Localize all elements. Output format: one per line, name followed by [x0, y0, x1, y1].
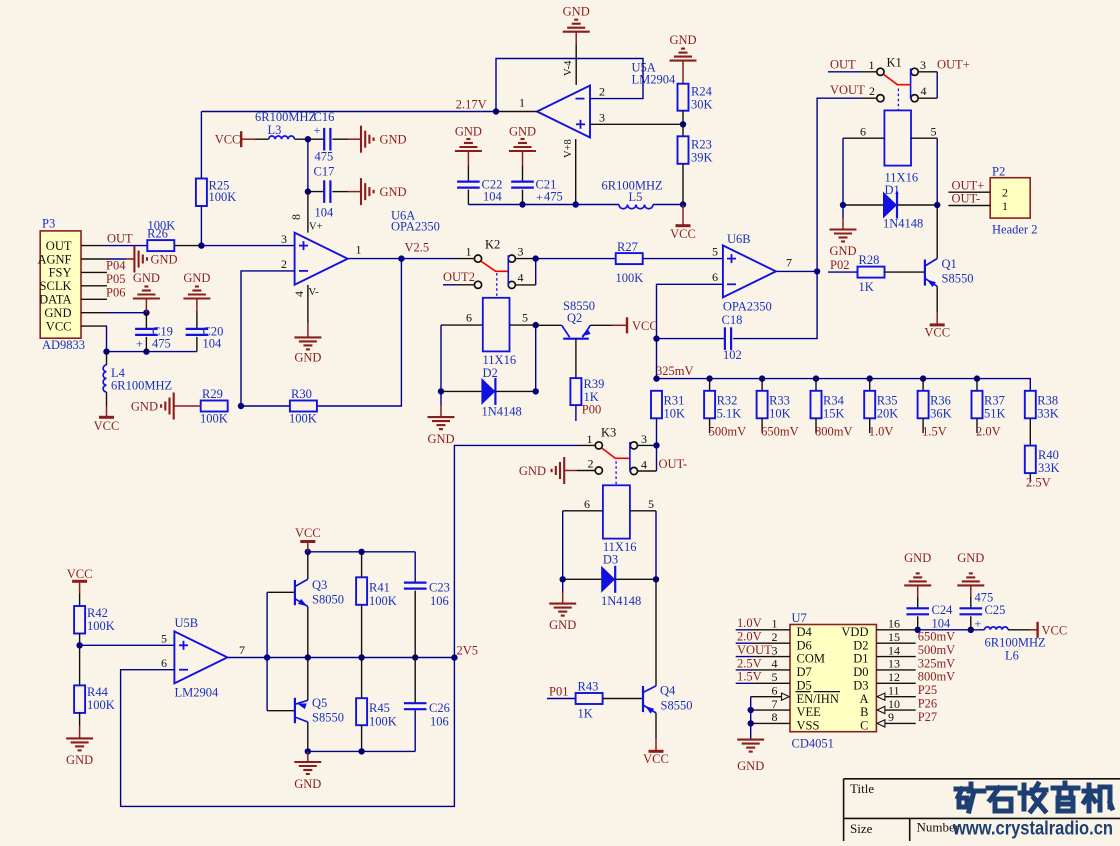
svg-text:GND: GND — [294, 777, 321, 791]
svg-text:1K: 1K — [578, 707, 593, 721]
svg-text:100K: 100K — [87, 698, 115, 712]
svg-text:1: 1 — [772, 617, 778, 631]
capacitor C23 106 — [404, 581, 427, 583]
switch K1 throw contacts — [911, 68, 918, 75]
svg-text:GND: GND — [549, 618, 576, 632]
wire R31 to K3 contacts — [656, 418, 658, 445]
svg-text:4: 4 — [292, 291, 306, 297]
svg-text:Q3: Q3 — [312, 578, 327, 592]
svg-text:7: 7 — [786, 256, 792, 270]
svg-text:1: 1 — [1002, 199, 1008, 213]
relay coil K2 11X16 — [483, 298, 510, 352]
svg-text:6: 6 — [860, 125, 866, 139]
wire Q5 collector to gnd rail — [307, 722, 309, 751]
wire P02 stub — [828, 271, 858, 273]
svg-text:R30: R30 — [291, 387, 312, 401]
resistor R28 1K — [858, 267, 885, 278]
svg-text:325mV: 325mV — [656, 364, 694, 378]
svg-text:D2: D2 — [853, 638, 868, 652]
svg-text:DATA: DATA — [39, 293, 71, 307]
svg-text:GND: GND — [44, 306, 71, 320]
op-amp U6B OPA2350 — [723, 245, 776, 297]
svg-text:D5: D5 — [797, 678, 812, 692]
svg-text:Q2: Q2 — [567, 311, 582, 325]
wire Q3 emitter to 2V5 — [307, 607, 309, 658]
svg-text:D3: D3 — [603, 553, 618, 567]
wire R39 stub — [575, 405, 577, 421]
svg-text:104: 104 — [315, 206, 335, 220]
svg-text:U5B: U5B — [175, 616, 199, 630]
wire U7 pin 9 with input arrow — [877, 720, 885, 727]
dashed link K3 — [615, 461, 617, 485]
svg-text:100K: 100K — [87, 619, 115, 633]
svg-text:2: 2 — [1002, 186, 1008, 200]
net label 800mV — [815, 418, 817, 433]
capacitor C22 104 — [457, 181, 480, 183]
wire U5A output 2.17V — [496, 111, 537, 113]
svg-text:6: 6 — [161, 656, 167, 670]
capacitor C19 475 polarized — [145, 313, 147, 329]
resistor R30 100K — [290, 401, 317, 412]
svg-text:100K: 100K — [369, 715, 397, 729]
svg-text:R39: R39 — [584, 377, 605, 391]
resistor R25 100K — [200, 112, 202, 179]
net label 1.0V — [869, 418, 871, 433]
svg-text:C18: C18 — [722, 313, 743, 327]
wire U7 pin 1 — [736, 629, 753, 631]
wire K2 to R27 — [536, 258, 616, 260]
wire Q3 collector to VCC rail — [307, 552, 309, 579]
svg-text:16: 16 — [888, 617, 900, 631]
svg-text:VCC: VCC — [94, 419, 120, 433]
wire U7 pin 12 — [876, 682, 915, 684]
wire Q5 emitter to 2V5 — [307, 658, 309, 701]
svg-text:VCC: VCC — [295, 526, 321, 540]
svg-text:V+8: V+8 — [563, 139, 574, 158]
power VCC after L6 — [1008, 629, 1030, 631]
svg-text:2: 2 — [588, 457, 594, 471]
svg-text:Q4: Q4 — [660, 684, 676, 698]
svg-text:S8050: S8050 — [312, 593, 344, 607]
svg-text:1.0V: 1.0V — [869, 425, 894, 439]
switch K1 pin2 — [877, 95, 884, 102]
svg-text:8: 8 — [289, 214, 303, 220]
wire U5B output 2V5 rail — [228, 657, 455, 659]
svg-text:FSY: FSY — [49, 266, 72, 280]
svg-text:VOUT: VOUT — [737, 643, 772, 657]
svg-text:V-4: V-4 — [563, 60, 574, 76]
wire U7 pin16 VDD rail — [876, 629, 917, 631]
resistor R23 39K — [678, 136, 689, 164]
wire gnd to U5A V- pin4 — [575, 45, 577, 85]
wire R38 to R40 — [1029, 418, 1031, 445]
inductor L4 6R100MHZ — [106, 352, 108, 365]
wire GND pin to C19 — [107, 312, 146, 314]
svg-text:R23: R23 — [691, 138, 712, 152]
svg-text:K3: K3 — [601, 426, 616, 440]
dashed link K2 — [496, 273, 498, 298]
svg-text:C26: C26 — [429, 701, 450, 715]
net label 2.5V — [1029, 473, 1031, 482]
resistor R34 15K — [813, 375, 819, 381]
svg-text:P2: P2 — [992, 165, 1005, 179]
resistor R26 100K — [147, 240, 174, 251]
svg-text:GND: GND — [519, 464, 546, 478]
svg-text:2: 2 — [599, 85, 605, 99]
svg-text:GND: GND — [294, 351, 321, 365]
svg-text:3: 3 — [920, 58, 926, 72]
switch K1 blade — [884, 74, 911, 84]
svg-text:D4: D4 — [797, 625, 813, 639]
resistor R43 1K — [576, 693, 603, 704]
svg-text:1N4148: 1N4148 — [601, 594, 641, 608]
ground below D2 anode — [440, 391, 442, 405]
svg-text:GND: GND — [669, 33, 696, 47]
svg-text:S8550: S8550 — [661, 699, 693, 713]
transistor Q4 S8550 — [603, 698, 643, 700]
svg-text:AD9833: AD9833 — [42, 338, 85, 352]
svg-text:500mV: 500mV — [709, 425, 747, 439]
svg-text:10K: 10K — [769, 407, 791, 421]
svg-text:OUT-: OUT- — [952, 192, 981, 206]
svg-text:LM2904: LM2904 — [175, 686, 220, 700]
svg-text:2: 2 — [772, 630, 778, 644]
wire V+ pin 8 of U6A — [307, 192, 309, 233]
power VCC below L4 — [106, 392, 108, 406]
svg-text:106: 106 — [430, 594, 449, 608]
wire R26 to U6A pin3 — [174, 245, 201, 247]
svg-text:R37: R37 — [984, 394, 1005, 408]
resistor R29 100K — [201, 401, 228, 412]
svg-text:2.17V: 2.17V — [456, 98, 487, 112]
svg-text:7: 7 — [239, 643, 245, 657]
resistor R33 10K — [759, 375, 765, 381]
svg-text:R31: R31 — [664, 394, 685, 408]
svg-text:OUT+: OUT+ — [937, 58, 970, 72]
svg-text:100K: 100K — [369, 594, 397, 608]
svg-text:51K: 51K — [984, 407, 1006, 421]
svg-text:L5: L5 — [629, 190, 643, 204]
svg-text:36K: 36K — [930, 407, 952, 421]
svg-text:100K: 100K — [209, 190, 237, 204]
relay coil K1 11X16 — [884, 110, 911, 165]
svg-text:1: 1 — [869, 58, 875, 72]
resistor R39 1K — [570, 378, 581, 405]
wire P2 pin1 — [948, 205, 990, 207]
wire relay K3 pin6 — [563, 510, 603, 512]
svg-text:100K: 100K — [200, 412, 228, 426]
svg-text:1N4148: 1N4148 — [482, 405, 522, 419]
svg-text:4: 4 — [518, 271, 524, 285]
svg-text:VEE: VEE — [797, 705, 822, 719]
dashed link K1 — [897, 89, 899, 111]
svg-text:R26: R26 — [147, 226, 168, 240]
svg-text:GND: GND — [427, 432, 454, 446]
svg-text:2.0V: 2.0V — [737, 630, 762, 644]
svg-text:1K: 1K — [859, 280, 874, 294]
header P2 — [990, 178, 1030, 218]
diode D2 1N4148 — [438, 388, 444, 394]
svg-text:OUT-: OUT- — [659, 457, 688, 471]
svg-text:R45: R45 — [369, 701, 390, 715]
svg-text:R27: R27 — [617, 240, 638, 254]
svg-text:12: 12 — [888, 670, 900, 684]
connector P3 AD9833 — [40, 231, 81, 338]
resistor R40 33K — [1025, 446, 1036, 474]
svg-text:VCC: VCC — [643, 752, 669, 766]
wire U7 pin 4 — [736, 669, 753, 671]
capacitor C21 475 polarized — [511, 181, 534, 183]
wire U5A pin8 V+ down — [575, 139, 577, 204]
svg-text:L6: L6 — [1005, 649, 1019, 663]
capacitor C25 475 polarized — [960, 607, 983, 609]
power VCC at Q3 — [307, 542, 309, 552]
switch K3 throw contacts — [630, 442, 637, 449]
svg-text:www.crystalradio.cn: www.crystalradio.cn — [952, 819, 1113, 840]
svg-text:D6: D6 — [797, 638, 812, 652]
wire U7 pin 5 — [736, 682, 753, 684]
svg-text:+: + — [314, 123, 321, 137]
wire relay K2 pin5 — [510, 324, 536, 326]
svg-text:2.0V: 2.0V — [976, 425, 1001, 439]
svg-text:D7: D7 — [797, 665, 812, 679]
svg-text:R33: R33 — [769, 394, 790, 408]
bottom gnd rail — [308, 750, 415, 752]
wire U6B pin6 feedback — [657, 284, 723, 378]
svg-text:P06: P06 — [106, 285, 125, 299]
svg-text:VCC: VCC — [632, 319, 658, 333]
svg-text:L3: L3 — [268, 123, 282, 137]
svg-text:15: 15 — [888, 630, 900, 644]
svg-text:11X16: 11X16 — [483, 353, 517, 367]
svg-text:V2.5: V2.5 — [405, 241, 430, 255]
ground right of C16 — [332, 138, 348, 140]
svg-text:5: 5 — [648, 497, 654, 511]
op-amp U5B LM2904 — [174, 631, 227, 683]
svg-text:4: 4 — [921, 84, 927, 98]
svg-text:102: 102 — [723, 348, 742, 362]
svg-text:K1: K1 — [887, 56, 902, 70]
svg-text:10K: 10K — [664, 407, 686, 421]
wire D1 to Q1 collector — [936, 205, 938, 259]
resistor R38 33K — [1025, 391, 1036, 419]
svg-text:R24: R24 — [691, 85, 713, 99]
wire Q2 base down to R39 — [575, 339, 577, 378]
resistor R24 30K — [678, 84, 689, 111]
svg-text:6: 6 — [772, 683, 778, 697]
overline on EN/IHN — [796, 691, 811, 693]
wire divider — [79, 634, 81, 686]
svg-text:S8550: S8550 — [312, 711, 344, 725]
svg-text:VCC: VCC — [1042, 624, 1068, 638]
resistor R42 100K — [74, 606, 85, 634]
capacitor C20 104 — [196, 299, 198, 312]
svg-text:GND: GND — [455, 125, 482, 139]
wire cap bottom rail — [107, 351, 197, 353]
switch K2 pin1 — [474, 255, 481, 262]
wire R30 to R29 — [241, 405, 290, 407]
svg-text:GND: GND — [183, 271, 210, 285]
svg-text:COM: COM — [797, 652, 825, 666]
svg-text:OUT: OUT — [46, 239, 72, 253]
resistor R41 100K — [361, 552, 363, 578]
svg-text:D0: D0 — [853, 665, 868, 679]
svg-text:Q5: Q5 — [312, 696, 327, 710]
wire P2 pin2 — [948, 191, 990, 193]
relay coil K3 11X16 — [603, 485, 630, 538]
svg-text:9: 9 — [888, 710, 894, 724]
svg-text:39K: 39K — [691, 151, 713, 165]
wire U6A output to K2 — [348, 258, 456, 260]
resistor R31 10K — [651, 391, 662, 419]
switch K2 blade — [481, 261, 508, 271]
ground at U6A pin 4 — [307, 285, 309, 323]
svg-text:SCLK: SCLK — [40, 279, 72, 293]
net label 650mV — [761, 418, 763, 433]
svg-text:1.5V: 1.5V — [737, 670, 762, 684]
ground below U7 — [737, 739, 764, 741]
svg-text:106: 106 — [430, 715, 449, 729]
resistor R35 20K — [867, 375, 873, 381]
svg-text:5: 5 — [712, 245, 718, 259]
diode D1 1N4148 — [840, 202, 846, 208]
ground below R44 — [79, 713, 81, 726]
power VCC at Q1 — [936, 286, 938, 312]
wire relay K1 pin5 — [911, 137, 937, 139]
net label 500mV — [709, 418, 711, 433]
svg-text:Q1: Q1 — [942, 257, 957, 271]
svg-text:104: 104 — [932, 617, 952, 631]
svg-text:OUT: OUT — [830, 58, 856, 72]
wire 2.17V feedback to R25 column — [201, 111, 496, 113]
svg-text:R40: R40 — [1038, 448, 1059, 462]
svg-text:V-: V- — [309, 287, 320, 298]
svg-text:15K: 15K — [823, 407, 845, 421]
svg-text:R44: R44 — [87, 685, 109, 699]
svg-text:Size: Size — [850, 821, 873, 836]
wire U7 pin 15 — [876, 642, 915, 644]
svg-text:GND: GND — [151, 252, 178, 266]
net label 1.5V — [922, 418, 924, 433]
svg-text:GND: GND — [133, 271, 160, 285]
svg-text:20K: 20K — [877, 407, 899, 421]
ground right of C17 — [332, 191, 348, 193]
svg-text:K2: K2 — [485, 238, 500, 252]
switch K3 pin1 — [595, 442, 602, 449]
svg-text:2.5V: 2.5V — [737, 656, 762, 670]
svg-text:100K: 100K — [289, 412, 317, 426]
svg-text:+: + — [136, 337, 143, 351]
capacitor C24 104 — [906, 607, 929, 609]
svg-text:D3: D3 — [853, 678, 868, 692]
svg-text:R42: R42 — [87, 606, 108, 620]
svg-text:500mV: 500mV — [918, 643, 956, 657]
inductor L6 6R100MHZ — [985, 627, 1009, 630]
svg-text:8: 8 — [772, 710, 778, 724]
svg-text:6R100MHZ: 6R100MHZ — [111, 379, 172, 393]
diode D3 1N4148 — [560, 576, 566, 582]
svg-text:5: 5 — [522, 311, 528, 325]
svg-text:VCC: VCC — [67, 567, 93, 581]
svg-text:475: 475 — [315, 150, 334, 164]
wire K2 pins 3-4 tie — [515, 284, 535, 286]
wire U6A pin2 to feedback node — [241, 271, 295, 406]
wire P01 stub — [547, 698, 576, 700]
svg-text:6R100MHZ: 6R100MHZ — [255, 110, 316, 124]
svg-text:EN/IHN: EN/IHN — [797, 692, 839, 706]
svg-text:AGNF: AGNF — [37, 252, 71, 266]
wire U7 gnd column — [750, 697, 752, 740]
svg-text:2V5: 2V5 — [457, 644, 479, 658]
resistor R45 100K — [361, 658, 363, 699]
feedback wire U5A output to pin2 — [496, 59, 643, 112]
svg-text:1.5V: 1.5V — [922, 425, 947, 439]
svg-text:P25: P25 — [918, 683, 937, 697]
svg-text:OPA2350: OPA2350 — [391, 220, 440, 234]
switch K3 blade — [602, 448, 630, 458]
svg-text:GND: GND — [904, 551, 931, 565]
svg-text:VCC: VCC — [924, 326, 950, 340]
wire U7 pin7 VEE — [751, 709, 790, 711]
svg-text:R35: R35 — [877, 394, 898, 408]
svg-text:R32: R32 — [717, 394, 738, 408]
resistor R27 100K — [616, 253, 643, 264]
svg-text:R38: R38 — [1037, 394, 1058, 408]
svg-text:GND: GND — [829, 244, 856, 258]
svg-text:2: 2 — [869, 84, 875, 98]
wire 2V5 to K3 pin1 — [578, 444, 595, 446]
svg-text:C25: C25 — [985, 603, 1006, 617]
svg-text:V+: V+ — [309, 222, 323, 233]
wire Q3 Q5 base column — [266, 592, 268, 710]
svg-text:325mV: 325mV — [918, 656, 956, 670]
svg-text:R29: R29 — [202, 387, 223, 401]
svg-text:6: 6 — [712, 270, 718, 284]
wire V2.5 down to R30 — [317, 259, 401, 406]
svg-text:OUT: OUT — [107, 232, 133, 246]
svg-text:5: 5 — [161, 632, 167, 646]
svg-text:VCC: VCC — [46, 319, 72, 333]
svg-text:3: 3 — [641, 432, 647, 446]
wire relay K2 pin6 — [441, 324, 483, 326]
svg-text:6: 6 — [466, 311, 472, 325]
svg-text:4: 4 — [772, 657, 778, 671]
svg-text:5.1K: 5.1K — [717, 407, 742, 421]
svg-text:C16: C16 — [314, 110, 335, 124]
svg-text:3: 3 — [772, 643, 778, 657]
svg-text:6: 6 — [584, 497, 590, 511]
wire U7 pin 13 — [876, 669, 915, 671]
svg-text:GND: GND — [957, 551, 984, 565]
wire U7 pin6 enable — [751, 696, 782, 698]
svg-text:OUT2: OUT2 — [443, 270, 475, 284]
wire D3 to Q4 collector — [655, 579, 657, 686]
op-amp U6A OPA2350 — [295, 233, 348, 285]
svg-text:1: 1 — [466, 245, 472, 259]
wire U6B output — [776, 270, 817, 272]
svg-text:+: + — [536, 190, 543, 204]
svg-text:GND: GND — [66, 753, 93, 767]
svg-text:GND: GND — [563, 5, 590, 19]
svg-text:OUT+: OUT+ — [952, 178, 985, 192]
325mV rail — [653, 375, 659, 381]
transistor Q3 S8050 — [267, 591, 295, 593]
wire to U5B pin5 — [80, 644, 175, 646]
svg-text:3: 3 — [518, 245, 524, 259]
svg-text:P00: P00 — [582, 403, 601, 417]
wire U7 pin 11 with input arrow — [877, 693, 885, 700]
svg-text:5: 5 — [772, 670, 778, 684]
